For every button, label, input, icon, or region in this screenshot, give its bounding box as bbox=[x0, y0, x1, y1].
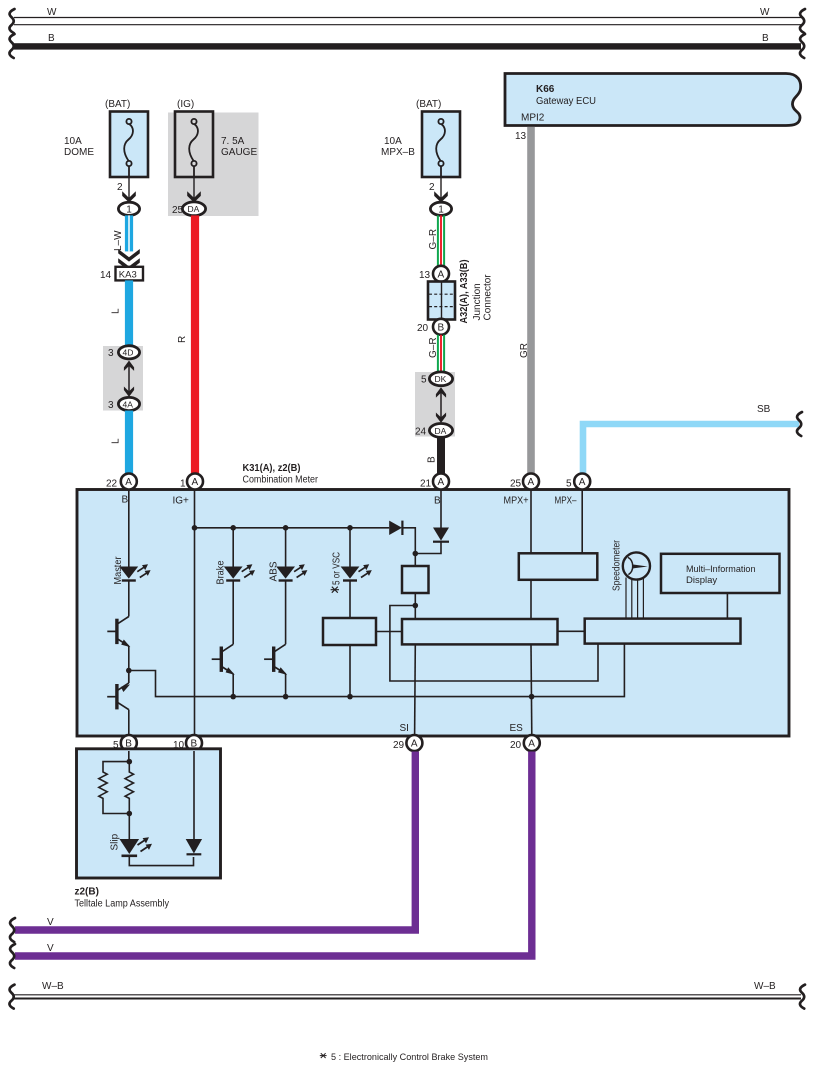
svg-text:G–R: G–R bbox=[428, 229, 439, 250]
wire W-B line1 bbox=[14, 994, 801, 996]
svg-text:1: 1 bbox=[438, 205, 444, 216]
node A20 (ES) bbox=[510, 735, 540, 751]
arrow bbox=[187, 191, 201, 202]
Brake column bbox=[212, 528, 255, 700]
svg-text:A: A bbox=[438, 270, 445, 281]
diode D2 (down-pointing on B column) bbox=[413, 490, 450, 556]
connector KA3 bbox=[100, 267, 143, 281]
svg-text:K66: K66 bbox=[536, 84, 555, 95]
node B20 bbox=[417, 319, 449, 335]
Master column bbox=[107, 490, 624, 736]
svg-text:14: 14 bbox=[100, 270, 112, 281]
wire block to bus bbox=[349, 645, 351, 697]
wire-break squiggle right bbox=[800, 985, 805, 1009]
svg-text:2: 2 bbox=[117, 182, 123, 193]
LED Master bbox=[119, 564, 150, 581]
arrow down dart bbox=[436, 413, 446, 423]
LED ABS bbox=[276, 564, 307, 581]
transistor Q3 bbox=[212, 644, 235, 675]
svg-text:MPX+: MPX+ bbox=[504, 496, 529, 507]
transistor Q2 (emitter up to dot) bbox=[107, 671, 130, 737]
svg-text:MPX–: MPX– bbox=[555, 496, 577, 507]
combination meter box K31(A) z2(B) bbox=[77, 463, 789, 736]
purple V wire (SI) bbox=[10, 752, 415, 943]
svg-text:W–B: W–B bbox=[754, 981, 776, 992]
svg-text:A: A bbox=[528, 739, 535, 750]
svg-text:5 or VSC: 5 or VSC bbox=[332, 552, 343, 585]
svg-text:Slip: Slip bbox=[110, 833, 121, 850]
svg-text:22: 22 bbox=[106, 479, 118, 490]
wire B bar bbox=[14, 43, 801, 49]
resistor pair bbox=[99, 751, 134, 816]
svg-text:A: A bbox=[125, 477, 132, 488]
wire fuse output bbox=[193, 177, 195, 199]
svg-text:25: 25 bbox=[510, 479, 522, 490]
svg-text:DA: DA bbox=[435, 426, 447, 436]
svg-text:Combination Meter: Combination Meter bbox=[243, 475, 319, 486]
wire LED to block bbox=[349, 581, 351, 618]
transistor Q1 bbox=[107, 617, 130, 648]
svg-text:Brake: Brake bbox=[215, 560, 226, 584]
wire shaft bbox=[440, 392, 442, 418]
svg-text:W–B: W–B bbox=[42, 981, 64, 992]
ABS column bbox=[264, 528, 307, 700]
svg-text:20: 20 bbox=[417, 323, 429, 334]
svg-text:B: B bbox=[48, 33, 55, 44]
wire bus to LED bbox=[232, 528, 234, 567]
svg-text:13: 13 bbox=[419, 270, 431, 281]
fuse element bbox=[189, 119, 198, 177]
wire W-B line2 bbox=[14, 998, 801, 1000]
wire-break squiggle right bbox=[800, 9, 805, 33]
svg-text:W: W bbox=[760, 7, 770, 18]
svg-text:A: A bbox=[438, 477, 445, 488]
wire LED to Q3 bbox=[232, 581, 234, 644]
svg-text:13: 13 bbox=[515, 131, 527, 142]
wire-break squiggle bbox=[10, 918, 15, 942]
junction dot bbox=[283, 525, 289, 531]
resistor R-left bbox=[99, 762, 130, 814]
wire-break squiggle left bbox=[9, 34, 14, 58]
junction dot bbox=[230, 525, 236, 531]
svg-text:A32(A), A33(B): A32(A), A33(B) bbox=[459, 260, 470, 324]
svg-text:A: A bbox=[579, 477, 586, 488]
wire LED to Q1 bbox=[128, 581, 130, 617]
+5 or VSC column bbox=[323, 528, 376, 700]
LED Slip triangle bbox=[120, 839, 140, 854]
wire B (black, to pin 21) bbox=[427, 437, 446, 474]
wire G-R (lower segment) bbox=[428, 335, 444, 372]
4D/4A in-harness connectors (gray panel) bbox=[103, 346, 143, 411]
svg-text:10A: 10A bbox=[64, 136, 82, 147]
node A1 bbox=[173, 474, 204, 507]
svg-text:GAUGE: GAUGE bbox=[221, 147, 257, 158]
svg-text:5: 5 bbox=[421, 375, 427, 386]
node A25 bbox=[504, 474, 540, 507]
MPX interface block bbox=[519, 490, 598, 619]
wire bus to LED bbox=[349, 528, 351, 567]
svg-text:DA: DA bbox=[188, 204, 200, 214]
arrow bbox=[434, 191, 448, 202]
svg-text:ABS: ABS bbox=[268, 561, 279, 581]
wire pin22 to LED bbox=[128, 490, 130, 567]
svg-text:SB: SB bbox=[757, 404, 771, 415]
svg-text:2: 2 bbox=[429, 182, 435, 193]
wire SB (light blue) bbox=[583, 404, 802, 474]
svg-text:Display: Display bbox=[686, 575, 717, 586]
svg-text:R: R bbox=[177, 336, 188, 343]
wire-break squiggle left bbox=[9, 985, 14, 1009]
wire B (top) bbox=[9, 33, 805, 58]
center block bbox=[402, 619, 585, 644]
arrow up dart bbox=[436, 387, 446, 397]
DK/DA in-harness connectors (gray panel) bbox=[415, 372, 455, 438]
fuse box 7.5A GAUGE bbox=[175, 112, 213, 178]
svg-text:Gateway ECU: Gateway ECU bbox=[536, 96, 596, 107]
arrow bbox=[122, 191, 136, 202]
wire Q1 emitter down bbox=[128, 646, 130, 671]
fuse DOME bbox=[64, 99, 148, 216]
svg-text:z2(B): z2(B) bbox=[75, 887, 99, 898]
svg-text:A: A bbox=[192, 477, 199, 488]
svg-text:29: 29 bbox=[393, 740, 405, 751]
svg-text:IG+: IG+ bbox=[173, 496, 190, 507]
small block bbox=[390, 554, 598, 682]
svg-text:Telltale Lamp Assembly: Telltale Lamp Assembly bbox=[75, 899, 170, 910]
svg-text:V: V bbox=[47, 943, 54, 954]
wire LED to Q4 bbox=[285, 581, 287, 644]
svg-text:B: B bbox=[762, 33, 769, 44]
svg-text:4A: 4A bbox=[123, 399, 134, 409]
junction connector A32(A) A33(B) bbox=[428, 260, 494, 324]
fuse MPX-B bbox=[381, 99, 460, 216]
wire L (lower) bbox=[111, 411, 134, 474]
svg-text:KA3: KA3 bbox=[119, 269, 137, 280]
resistor R-right bbox=[125, 762, 133, 814]
diode D3 (telltale) bbox=[186, 751, 202, 854]
svg-text:K31(A), z2(B): K31(A), z2(B) bbox=[243, 463, 301, 474]
svg-text:24: 24 bbox=[415, 427, 427, 438]
svg-text:ES: ES bbox=[510, 723, 524, 734]
node A29 (SI) bbox=[393, 735, 422, 751]
wire fuse output bbox=[128, 177, 130, 199]
wire L (upper) bbox=[111, 280, 134, 346]
svg-text:B: B bbox=[434, 496, 441, 507]
K66 Gateway ECU box bbox=[505, 74, 801, 126]
wire G-R (upper segment) bbox=[428, 215, 444, 266]
svg-text:Multi–Information: Multi–Information bbox=[686, 564, 756, 575]
node A21 bbox=[420, 474, 449, 507]
svg-text:5: 5 bbox=[566, 479, 572, 490]
svg-text:Junction: Junction bbox=[472, 283, 483, 320]
multi-information display bbox=[661, 554, 780, 619]
svg-text:L: L bbox=[111, 308, 122, 314]
wire Q4 emitter to bus bbox=[285, 674, 287, 697]
wire to Slip LED bbox=[128, 814, 130, 840]
svg-text:1: 1 bbox=[126, 205, 132, 216]
wire W line2 bbox=[14, 24, 801, 26]
arrow up dart bbox=[124, 361, 134, 371]
wire W-B (bottom) bbox=[9, 981, 805, 1009]
wire-break squiggle left bbox=[9, 9, 14, 33]
LED VSC bbox=[341, 564, 372, 581]
fuse box 10A MPX-B bbox=[422, 112, 460, 178]
svg-text:B: B bbox=[438, 323, 445, 334]
ES line bbox=[510, 644, 535, 736]
wire-break squiggle right bbox=[800, 34, 805, 58]
svg-text:SI: SI bbox=[400, 723, 409, 734]
fuse GAUGE (gray panel) bbox=[168, 99, 259, 216]
left block bbox=[323, 618, 376, 645]
gray panel bbox=[168, 113, 259, 217]
junction dot bbox=[283, 694, 289, 700]
svg-text:W: W bbox=[47, 7, 57, 18]
node A5 bbox=[555, 474, 591, 507]
svg-text:B: B bbox=[122, 495, 129, 506]
junction dot bbox=[192, 525, 198, 531]
wire W line1 bbox=[14, 17, 801, 19]
svg-text:DK: DK bbox=[435, 374, 447, 384]
right block bbox=[585, 619, 741, 644]
connector oval 1 bbox=[430, 202, 451, 215]
svg-text:3: 3 bbox=[108, 400, 114, 411]
svg-text:3: 3 bbox=[108, 348, 114, 359]
SI line bbox=[400, 644, 416, 736]
wire L-W (cyan w/ white stripe) bbox=[113, 215, 140, 270]
svg-text:10A: 10A bbox=[384, 136, 402, 147]
arrow down dart bbox=[124, 387, 134, 397]
svg-text:MPI2: MPI2 bbox=[521, 113, 545, 124]
node B5 (bottom) bbox=[113, 735, 137, 751]
connector oval 1 bbox=[118, 202, 139, 215]
svg-text:GR: GR bbox=[519, 343, 530, 358]
svg-text:Speedometer: Speedometer bbox=[612, 539, 623, 591]
junction dot bbox=[230, 694, 236, 700]
purple V wire (ES) bbox=[10, 752, 532, 969]
connector oval DA pin 25 bbox=[182, 202, 205, 216]
svg-text:V: V bbox=[47, 917, 54, 928]
svg-text:(IG): (IG) bbox=[177, 99, 194, 110]
svg-text:Connector: Connector bbox=[483, 274, 494, 321]
fuse element bbox=[124, 119, 133, 177]
wire from Q1/Q2 node to lower bus bbox=[129, 644, 625, 697]
svg-text:B: B bbox=[427, 456, 438, 463]
junction dot bbox=[347, 525, 353, 531]
telltale lamp assembly box z2(B) bbox=[75, 749, 221, 910]
Slip LED bbox=[110, 814, 194, 866]
wire top bus bbox=[195, 527, 390, 529]
svg-text:5 : Electronically Control Bra: 5 : Electronically Control Brake System bbox=[331, 1052, 488, 1063]
svg-text:(BAT): (BAT) bbox=[105, 99, 130, 110]
wire R (red) bbox=[177, 215, 199, 473]
svg-text:G–R: G–R bbox=[428, 337, 439, 358]
junction dot bbox=[347, 694, 353, 700]
wire GR vertical from K66 pin 13 bbox=[515, 127, 535, 476]
diode D1 (right-pointing on bus) bbox=[389, 521, 415, 554]
transistor Q4 bbox=[264, 644, 287, 675]
wire GR bbox=[527, 127, 535, 476]
fuse box 10A DOME bbox=[110, 112, 148, 178]
footnote star symbol bbox=[320, 1053, 327, 1058]
node B10 (bottom) bbox=[173, 735, 202, 751]
node A13 bbox=[419, 266, 449, 282]
wire-break squiggle bbox=[10, 944, 15, 968]
double chevron into KA3 bbox=[118, 249, 140, 262]
svg-text:1: 1 bbox=[180, 479, 186, 490]
wire W (top) bbox=[9, 7, 805, 33]
svg-text:A: A bbox=[528, 477, 535, 488]
svg-text:MPX–B: MPX–B bbox=[381, 147, 415, 158]
fuse element bbox=[436, 119, 445, 177]
svg-text:4D: 4D bbox=[123, 348, 134, 358]
wire bus to LED bbox=[285, 528, 287, 567]
svg-text:21: 21 bbox=[420, 479, 432, 490]
LED Brake bbox=[224, 564, 255, 581]
junction dot bbox=[126, 668, 132, 674]
wire fuse output bbox=[440, 177, 442, 199]
wire Q3 emitter to bus bbox=[232, 674, 234, 697]
speedometer bbox=[612, 539, 651, 618]
wire IG+ column bbox=[194, 490, 196, 736]
left block link bbox=[376, 631, 402, 633]
node A22 bbox=[106, 474, 137, 506]
svg-text:A: A bbox=[411, 739, 418, 750]
svg-text:L–W: L–W bbox=[113, 230, 124, 251]
svg-text:25: 25 bbox=[172, 205, 184, 216]
svg-text:7. 5A: 7. 5A bbox=[221, 136, 245, 147]
svg-text:L: L bbox=[111, 438, 122, 444]
svg-text:20: 20 bbox=[510, 740, 522, 751]
svg-text:(BAT): (BAT) bbox=[416, 99, 441, 110]
svg-text:DOME: DOME bbox=[64, 147, 94, 158]
wire shaft bbox=[128, 365, 130, 392]
footnote bbox=[320, 1052, 488, 1063]
